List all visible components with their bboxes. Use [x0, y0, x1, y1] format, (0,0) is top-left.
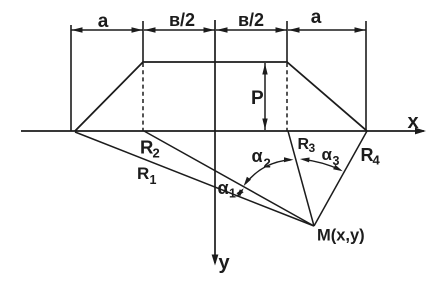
- angle arrow alpha1: [236, 188, 243, 197]
- dashed drop line left: [142, 63, 144, 131]
- svg-text:в/2: в/2: [238, 10, 264, 30]
- line R2: [144, 131, 314, 226]
- svg-text:3: 3: [333, 154, 340, 168]
- y axis: [212, 20, 219, 266]
- dashed drop line right: [286, 63, 288, 131]
- extension line top-right corner: [286, 21, 288, 62]
- line R4: [314, 131, 367, 226]
- extension line top-left corner: [142, 21, 144, 62]
- extension line left: [70, 25, 72, 131]
- dimension arrow a left: [71, 27, 143, 32]
- angle arc alpha2: [244, 157, 294, 186]
- svg-text:2: 2: [153, 146, 160, 161]
- dimension arrow P: [262, 63, 267, 130]
- svg-text:4: 4: [373, 153, 381, 168]
- dimension arrow b/2 left: [144, 27, 215, 32]
- svg-text:M(x,y): M(x,y): [317, 227, 365, 245]
- svg-text:P: P: [251, 88, 264, 109]
- line R1: [75, 132, 314, 226]
- svg-text:2: 2: [264, 156, 271, 171]
- svg-text:a: a: [311, 7, 322, 28]
- svg-text:R: R: [140, 137, 153, 158]
- svg-text:y: y: [219, 252, 231, 274]
- x axis: [21, 128, 426, 135]
- svg-text:α: α: [252, 146, 263, 166]
- svg-text:a: a: [98, 11, 109, 32]
- svg-text:α: α: [322, 145, 333, 164]
- svg-text:1: 1: [229, 187, 236, 201]
- svg-text:α: α: [218, 178, 229, 198]
- line R3: [288, 131, 314, 226]
- svg-text:в/2: в/2: [169, 10, 195, 30]
- dimension arrow a right: [288, 27, 366, 32]
- angle arc alpha3: [300, 158, 343, 172]
- svg-text:R: R: [137, 164, 149, 183]
- svg-text:x: x: [408, 111, 419, 133]
- extension line right: [365, 21, 367, 131]
- trapezoid load outline: [75, 62, 367, 131]
- dimension arrow b/2 right: [216, 27, 287, 32]
- svg-text:3: 3: [309, 141, 316, 155]
- svg-text:1: 1: [150, 173, 157, 187]
